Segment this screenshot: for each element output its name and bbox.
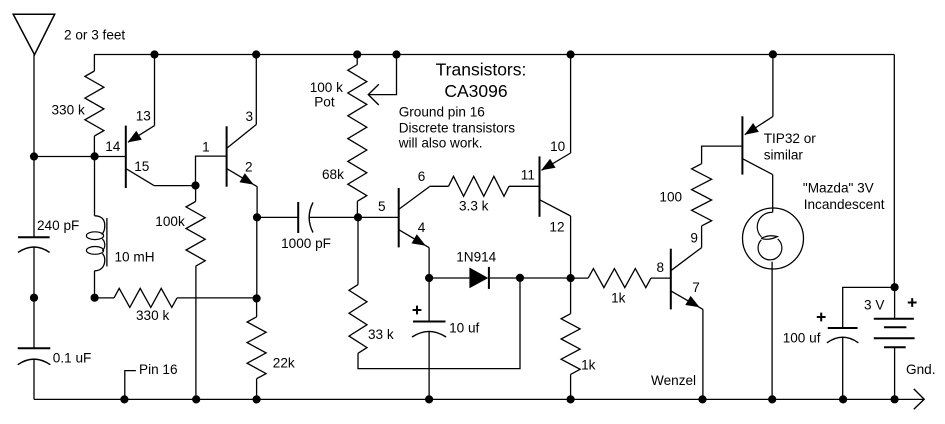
node 10uF/ground junction (425, 395, 433, 403)
svg-text:Pin 16: Pin 16 (139, 362, 178, 377)
label Ground pin 16 (399, 105, 485, 120)
wire antenna lead-in (33, 55, 35, 157)
resistor R9 1k horizontal (588, 269, 651, 288)
transistor Q2 base bar (pin 1) (226, 126, 228, 186)
svg-text:Gnd.: Gnd. (906, 362, 935, 377)
label 3.3 k (459, 199, 489, 214)
label Pin 16 (139, 362, 178, 377)
wire 1000pF right (309, 216, 358, 218)
wire 22k bottom stub (256, 379, 258, 400)
lamp DS1 envelope (743, 208, 804, 269)
wire Q3 base (358, 216, 398, 218)
wire bottom ground rail (34, 398, 924, 400)
wire Q5 collector up (701, 226, 703, 248)
svg-text:11: 11 (521, 168, 535, 183)
wire TIP32 collector down (772, 175, 774, 213)
svg-text:Wenzel: Wenzel (651, 373, 696, 388)
wire Q2 emitter down (256, 187, 258, 218)
node 330k/inductor junction (91, 152, 99, 160)
svg-text:8: 8 (657, 260, 665, 275)
label similar (764, 148, 804, 163)
node TIP32/rail junction (769, 50, 777, 58)
label 3 V (864, 298, 884, 313)
capacitor C2 0.1 uF (18, 348, 51, 365)
lamp filament lower loop (758, 239, 782, 260)
svg-text:68k: 68k (322, 167, 344, 182)
transistor Q4 emitter (pin 10) (541, 153, 570, 170)
wire 100uF top elbow (843, 287, 895, 328)
resistor R10 1k vertical (561, 314, 580, 375)
svg-text:15: 15 (134, 159, 149, 174)
resistor R3 100k (186, 202, 205, 267)
svg-text:TIP32 or: TIP32 or (764, 131, 817, 146)
svg-text:5: 5 (378, 199, 386, 214)
label 13 (136, 109, 151, 124)
label 240 pF (37, 218, 79, 233)
label 7 (692, 280, 700, 295)
label 22k (273, 356, 295, 371)
label 2 or 3 feet (64, 28, 125, 43)
svg-text:Ground pin 16: Ground pin 16 (399, 105, 485, 120)
svg-text:100 k: 100 k (310, 80, 343, 95)
transistor Q5 collector (pin 9) (671, 248, 701, 271)
label 14 (105, 139, 121, 154)
wire 330k-horiz left (95, 297, 114, 299)
capacitor C1 240 pF (18, 237, 50, 252)
wire Q1 base (34, 156, 125, 158)
resistor R2 330 k horizontal (114, 288, 177, 307)
svg-text:13: 13 (136, 109, 151, 124)
antenna (13, 14, 55, 55)
transistor Q2 collector (pin 3) (227, 125, 256, 149)
svg-text:Discrete transistors: Discrete transistors (399, 121, 516, 136)
svg-text:100 uf: 100 uf (783, 331, 821, 346)
node pot-top/rail junction (353, 50, 361, 58)
resistor R11 100 (692, 164, 712, 226)
svg-text:33 k: 33 k (368, 327, 394, 342)
node 22k/ground junction (253, 395, 261, 403)
wire battery top stub (894, 287, 896, 319)
wire diode cathode (489, 277, 571, 279)
svg-text:Pot: Pot (314, 95, 335, 110)
resistor R8 33 k (349, 285, 367, 354)
node Q2emitter/1000pF junction (253, 213, 261, 221)
resistor R1 330 k (85, 71, 104, 136)
label Pot (314, 95, 335, 110)
svg-text:100k: 100k (155, 214, 185, 229)
wire 100k top stub (195, 186, 197, 202)
wire Q2 base (196, 156, 227, 185)
wire 10uF bottom stub (428, 331, 430, 399)
wire Q5 emitter down (702, 309, 704, 399)
wire Q3 emitter down (428, 248, 430, 278)
wire Q4 collector down (570, 216, 572, 278)
label 100 k (310, 80, 343, 95)
node 1000pF/Q3-base junction (354, 213, 362, 221)
node Q5emitter/ground junction (698, 395, 706, 403)
svg-text:will also work.: will also work. (398, 136, 483, 151)
svg-text:10 uf: 10 uf (449, 321, 479, 336)
transistor Q3 collector (pin 6) (399, 187, 429, 209)
resistor R7 3.3 k (449, 176, 510, 196)
label 8 (657, 260, 665, 275)
wire 3.3k left link (430, 185, 449, 187)
transistor Q3 base bar (pin 5) (398, 188, 400, 247)
label 1k (R9) (611, 291, 626, 306)
label 1N914 (456, 250, 496, 265)
wire top supply rail (94, 54, 894, 56)
wire 3.3k right link (509, 185, 539, 187)
transistor Q6 TIP32 base bar (741, 116, 743, 174)
label 5 (378, 199, 386, 214)
svg-text:Incandescent: Incandescent (804, 197, 885, 212)
svg-text:4: 4 (418, 220, 426, 235)
node left-rail/330k-horiz junction (30, 294, 38, 302)
label CA3096 (444, 81, 507, 101)
wire Q1 collector to node (154, 185, 196, 187)
wire left rail bottom (33, 359, 35, 399)
svg-text:1k: 1k (581, 358, 596, 373)
wire 330k-horiz right (177, 297, 257, 299)
transistor Q6 TIP32 emitter (745, 117, 773, 135)
transistor Q3 emitter (pin 4) (399, 230, 429, 248)
wire pin 16 pointer (125, 371, 136, 400)
label 15 (134, 159, 149, 174)
wire 100k bottom stub (195, 266, 197, 399)
wire 1k-vert bottom stub (570, 374, 572, 399)
wire 33k bottom elbow (358, 278, 520, 369)
wire pin 3 vertical (255, 55, 257, 125)
label Wenzel (651, 373, 696, 388)
wire lamp bottom (771, 262, 773, 400)
wire 1k-horiz right (651, 277, 670, 279)
label 10 (550, 139, 566, 154)
svg-text:Transistors:: Transistors: (436, 60, 527, 80)
label Transistors: (436, 60, 527, 80)
svg-text:330 k: 330 k (136, 308, 169, 323)
label 330 k (R2) (136, 308, 169, 323)
node battery/rail junction (891, 283, 899, 291)
node pin13/rail junction (150, 50, 158, 58)
wire battery bottom stub (894, 347, 896, 399)
wire left rail lower (33, 298, 35, 349)
svg-text:similar: similar (764, 148, 804, 163)
label 68k (322, 167, 344, 182)
node diode/33k-feedback junction (516, 274, 524, 282)
svg-text:CA3096: CA3096 (444, 81, 507, 101)
label 100 uf (783, 331, 821, 346)
label Incandescent (804, 197, 885, 212)
svg-text:12: 12 (549, 220, 564, 235)
wire pin 13 vertical (154, 55, 156, 126)
resistor R5 100k pot + R6 68k (348, 65, 367, 202)
node Q1-collector/Q2-base/100k junction (191, 181, 199, 189)
transistor Q5 base bar (pin 8) (670, 249, 672, 310)
label 0.1 uF (53, 351, 92, 366)
wire 33k top stub (357, 217, 359, 284)
transistor Q2 emitter (pin 2) (227, 169, 257, 187)
label 1k (R10) (581, 358, 596, 373)
wire 10uF top stub (428, 278, 430, 322)
diode D1 1N914 (469, 267, 489, 289)
wire 1k-horiz left (571, 277, 589, 279)
wire left rail mid (33, 247, 35, 298)
wire TIP32 emitter vertical (772, 55, 774, 117)
transistor Q1 collector (pin 15) (127, 169, 155, 186)
label will also work. (398, 136, 483, 151)
label 10 mH (115, 250, 155, 265)
wire 1000pF left (257, 216, 298, 218)
label 9 (690, 230, 698, 245)
svg-text:3.3 k: 3.3 k (459, 199, 489, 214)
wire 100ohm top elbow (702, 146, 742, 164)
svg-text:1N914: 1N914 (456, 250, 496, 265)
label 100k (155, 214, 185, 229)
pot wiper (368, 55, 396, 106)
svg-text:3 V: 3 V (864, 298, 884, 313)
label 6 (418, 169, 426, 184)
svg-text:1: 1 (202, 139, 210, 154)
svg-text:1000 pF: 1000 pF (281, 236, 331, 251)
wire 22k top stub (256, 298, 258, 317)
wire inductor top stub (94, 157, 96, 216)
wire pot top stub (356, 55, 358, 65)
node lamp/ground junction (768, 395, 776, 403)
node pin3/rail junction (252, 50, 260, 58)
capacitor C5 100 uf (827, 328, 859, 343)
transistor Q6 TIP32 collector (743, 159, 773, 175)
svg-text:240 pF: 240 pF (37, 218, 79, 233)
node wiper-top/rail junction (392, 50, 400, 58)
node 1k/ground junction (567, 395, 575, 403)
svg-text:9: 9 (690, 230, 698, 245)
node 100uF/ground junction (839, 395, 847, 403)
node 330k/22k junction (253, 294, 261, 302)
wire right rail (battery + side) (893, 55, 895, 288)
svg-text:10 mH: 10 mH (115, 250, 155, 265)
lamp filament leaf (761, 236, 777, 240)
svg-text:3: 3 (246, 109, 254, 124)
capacitor C4 10 uf plus (413, 306, 422, 315)
transistor Q1 emitter (pin 13) (128, 126, 155, 143)
wire 330k top stub (93, 55, 95, 72)
inductor L1 10 mH (86, 216, 107, 271)
svg-text:6: 6 (418, 169, 426, 184)
transistor Q4 base bar (pin 11) (539, 156, 541, 216)
label Gnd. (906, 362, 935, 377)
transistor Q4 collector (pin 12) (540, 200, 571, 216)
label 2 (245, 159, 253, 174)
svg-text:0.1 uF: 0.1 uF (53, 351, 92, 366)
capacitor C3 1000 pF (298, 202, 313, 233)
label 4 (418, 220, 426, 235)
lamp filament upper loop (757, 212, 772, 237)
capacitor C5 100 uf plus (817, 313, 826, 322)
node Q4col/1k junction (567, 274, 575, 282)
node pin16/ground junction (120, 395, 128, 403)
label 33 k (368, 327, 394, 342)
node pin10/rail junction (567, 50, 575, 58)
label 330 k (R1) (52, 103, 85, 118)
svg-text:330 k: 330 k (52, 103, 85, 118)
svg-text:"Mazda" 3V: "Mazda" 3V (803, 181, 874, 196)
node antenna/base junction (30, 152, 38, 160)
node battery/ground junction (891, 395, 899, 403)
node 100k/ground junction (192, 395, 200, 403)
wire 22k upper link (256, 217, 258, 298)
battery BT1 3V (874, 319, 915, 348)
label 1 (202, 139, 210, 154)
capacitor C4 10 uf (412, 322, 446, 338)
node Q3emitter/diode junction (425, 274, 433, 282)
wire inductor bottom stub (94, 271, 96, 298)
label TIP32 or (764, 131, 817, 146)
label 11 (521, 168, 535, 183)
label Discrete transistors (399, 121, 516, 136)
svg-text:10: 10 (550, 139, 566, 154)
wire pin 10 vertical (570, 55, 572, 154)
svg-text:14: 14 (105, 139, 121, 154)
svg-text:2: 2 (245, 159, 253, 174)
battery plus (908, 298, 917, 307)
transistor Q1 base bar (pin 14) (125, 126, 127, 188)
label 3 (246, 109, 254, 124)
label 12 (549, 220, 564, 235)
label 1000 pF (281, 236, 331, 251)
wire pot bottom stub (356, 201, 358, 217)
wire left rail upper (33, 157, 35, 238)
resistor R4 22k (247, 317, 266, 379)
svg-text:7: 7 (692, 280, 700, 295)
svg-text:2 or 3 feet: 2 or 3 feet (64, 28, 125, 43)
wire diode anode (429, 277, 469, 279)
wire 100uF bottom stub (842, 337, 844, 399)
transistor Q5 emitter (pin 7) (671, 291, 703, 309)
wire 1k-vert top stub (570, 278, 572, 314)
svg-text:22k: 22k (273, 356, 295, 371)
ground rail arrowhead (914, 389, 924, 409)
label Mazda 3V (803, 181, 874, 196)
wire 330k bottom stub (93, 136, 95, 157)
svg-text:100: 100 (659, 190, 682, 205)
label 10 uf (449, 321, 479, 336)
label 100 (659, 190, 682, 205)
svg-text:1k: 1k (611, 291, 626, 306)
node inductor/330k-horiz junction (91, 294, 99, 302)
